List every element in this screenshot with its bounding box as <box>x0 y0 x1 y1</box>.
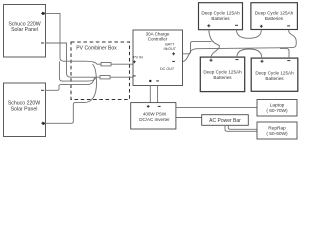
BT2 terminal - <box>287 25 290 27</box>
wire branch down-left of combiner to fuse F2 input <box>59 61 95 81</box>
solar panel PV1 label <box>8 21 40 33</box>
wire fuse F1 to controller PV IN + <box>111 63 133 65</box>
AC power bar box <box>202 115 249 126</box>
solar panel PV2 label <box>8 101 40 113</box>
controller DC OUT - <box>156 80 159 82</box>
svg-text:Controller: Controller <box>148 37 168 42</box>
solar panel PV2 <box>4 83 46 137</box>
wire PV2+ rising to fuse F1 input <box>46 64 97 123</box>
battery BT1 label <box>201 11 240 22</box>
controller BATT - <box>172 60 175 62</box>
svg-text:DC OUT: DC OUT <box>160 67 175 71</box>
wire AC power bar to RepRap (upper) <box>228 125 257 129</box>
PV1 terminal + <box>41 12 44 15</box>
battery BT4 label <box>255 71 294 82</box>
battery BT3 label <box>203 70 242 81</box>
BT3 terminal + <box>210 59 213 62</box>
svg-text:RepRap: RepRap <box>268 125 286 131</box>
svg-text:PV IN: PV IN <box>133 56 143 60</box>
svg-text:Deep Cycle 125Ah: Deep Cycle 125Ah <box>203 70 242 75</box>
controller PV IN label <box>133 56 143 60</box>
wire BT3- arc to BT4+ <box>237 49 262 58</box>
controller PV IN - <box>133 75 136 77</box>
wire PV1- to fuse F2 <box>46 43 101 77</box>
svg-text:PV Combiner Box: PV Combiner Box <box>76 45 117 51</box>
svg-text:AC Power Bar: AC Power Bar <box>209 118 241 124</box>
svg-text:Batteries: Batteries <box>211 16 230 21</box>
wire AC power bar to RepRap (lower) <box>225 125 257 131</box>
controller BATT + <box>172 52 175 55</box>
wire BT4- stub up to negative bus <box>280 48 289 58</box>
wire BT1- dip to BT2+ <box>237 30 262 39</box>
svg-text:BATT: BATT <box>165 43 175 47</box>
wire BT1+ arc down to BT3+ <box>209 30 220 58</box>
controller PV IN + <box>133 60 136 63</box>
wire controller BATT+ to positive bus junction <box>183 41 212 53</box>
charge controller label <box>146 32 170 42</box>
AC power bar label <box>209 118 241 124</box>
svg-text:Solar Panel: Solar Panel <box>11 27 38 33</box>
svg-text:Deep Cycle 125Ah: Deep Cycle 125Ah <box>255 71 294 76</box>
battery BT1 (top-left) <box>199 3 243 30</box>
inverter terminal - <box>158 105 161 107</box>
battery BT3 (bottom-left) <box>200 57 244 92</box>
svg-text:( 50-60W): ( 50-60W) <box>266 131 288 137</box>
controller DC OUT label <box>160 67 175 71</box>
svg-text:IN/OUT: IN/OUT <box>164 47 177 51</box>
BT4 terminal + <box>261 60 264 63</box>
svg-text:Laptop: Laptop <box>270 102 285 108</box>
PV2 terminal - <box>41 89 44 91</box>
wire controller DC OUT + to inverter <box>149 86 151 103</box>
wire fuse F2 to controller PV IN - <box>110 76 133 78</box>
wire BT2- down to negative bus <box>289 30 297 48</box>
wire negative bus to controller BATT- <box>183 48 291 62</box>
controller DC OUT + dot <box>149 80 151 82</box>
wire PV2- rising to fuse F2 input <box>46 77 95 90</box>
BT1 terminal + <box>207 24 210 27</box>
fuse F2 <box>100 76 110 79</box>
svg-text:( 60-70W): ( 60-70W) <box>266 108 288 114</box>
laptop label <box>266 102 288 114</box>
charge controller U1 <box>133 30 183 86</box>
svg-text:Batteries: Batteries <box>213 75 232 80</box>
RepRap label <box>266 125 288 137</box>
svg-text:DC/AC Inverter: DC/AC Inverter <box>139 117 170 122</box>
PV combiner box label <box>76 45 117 51</box>
fuse F1 <box>101 63 111 66</box>
svg-text:Batteries: Batteries <box>265 16 284 21</box>
PV1 terminal - <box>41 42 44 44</box>
solar panel PV1 <box>4 5 46 58</box>
inverter box <box>131 103 176 129</box>
wire inverter to laptop <box>176 107 257 109</box>
battery BT4 (bottom-right) <box>251 58 298 91</box>
battery BT2 (top-right) <box>251 3 298 30</box>
RepRap load box <box>257 122 297 139</box>
BT1 terminal - <box>235 24 238 26</box>
controller BATT IN/OUT label <box>164 43 177 51</box>
inverter label <box>139 111 170 122</box>
svg-text:Solar Panel: Solar Panel <box>11 107 38 113</box>
wire controller DC OUT - to inverter <box>157 86 159 103</box>
battery BT2 label <box>255 11 294 22</box>
PV1 terminal dot + <box>42 12 45 15</box>
svg-text:Batteries: Batteries <box>265 76 284 81</box>
PV combiner box (dashed) <box>71 42 130 100</box>
BT4 terminal - <box>287 60 290 62</box>
BT3 terminal - <box>235 59 238 61</box>
BT2 terminal + <box>260 25 263 28</box>
PV2 terminal dot + <box>42 122 45 125</box>
svg-text:400W PSW: 400W PSW <box>143 111 167 116</box>
svg-text:Deep Cycle 125Ah: Deep Cycle 125Ah <box>201 11 240 16</box>
wire PV1+ to fuse F1 <box>46 13 102 64</box>
inverter terminal + <box>147 105 150 108</box>
laptop load box <box>257 100 297 117</box>
PV2 terminal + <box>41 122 44 125</box>
wire inverter to AC power bar <box>176 117 202 119</box>
svg-text:Deep Cycle 125Ah: Deep Cycle 125Ah <box>255 11 294 16</box>
